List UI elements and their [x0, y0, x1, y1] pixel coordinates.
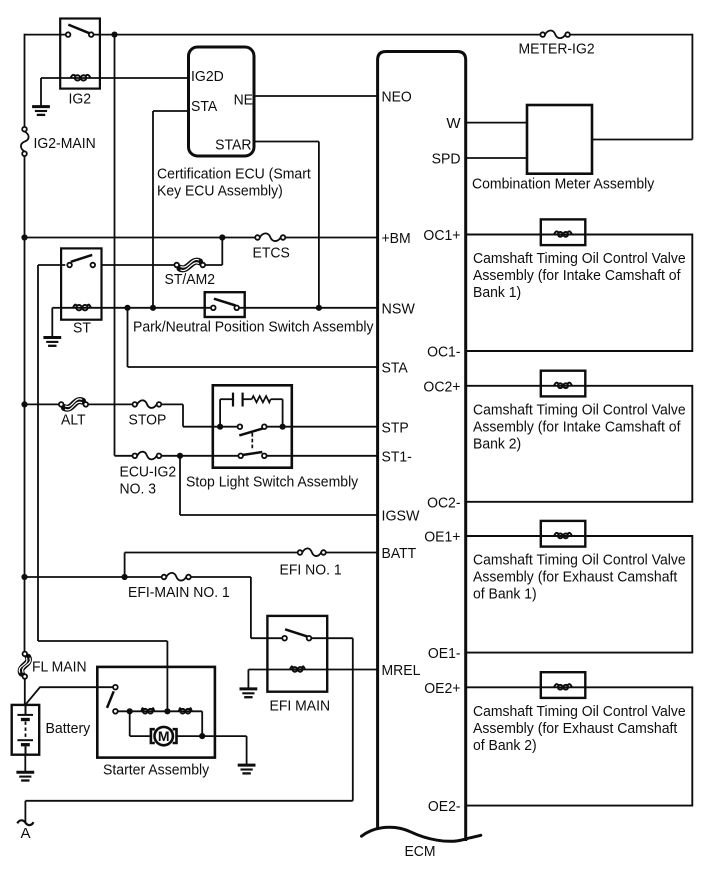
label ALT: [61, 412, 86, 429]
label Combination Meter Assembly: [472, 176, 655, 193]
fuse IG2-MAIN: [21, 127, 29, 156]
valve 3 coil: [554, 533, 572, 538]
node EFI-MAIN tap: [21, 574, 27, 580]
switch Park/Neutral lever: [214, 299, 236, 306]
wire battery positive diagonal to starter switch: [26, 687, 113, 704]
relay ST box: [61, 248, 101, 319]
svg-text:STOP: STOP: [129, 412, 167, 429]
valve Camshaft Timing Oil Control Valve Assembly 1 box: [466, 235, 693, 352]
svg-text:A: A: [21, 825, 31, 842]
wire IG2 coil to Certification ECU IG2D: [100, 77, 189, 79]
label Battery: [46, 720, 91, 737]
label FL MAIN: [32, 659, 87, 676]
wire motor branch: [130, 711, 203, 736]
wire EFI-MAIN NO. 1 row: [25, 577, 251, 638]
pin STA label: [382, 360, 408, 377]
break symbol at node A: [17, 820, 33, 825]
wire STP row inside box: [213, 426, 378, 428]
svg-text:EFI-MAIN NO. 1: EFI-MAIN NO. 1: [128, 584, 230, 601]
wire starter solenoid row: [118, 711, 203, 736]
svg-text:NEO: NEO: [382, 89, 412, 106]
wire EFI MAIN coil left to ground: [248, 670, 267, 689]
svg-text:Combination Meter Assembly: Combination Meter Assembly: [472, 176, 655, 193]
label METER-IG2: [519, 41, 595, 58]
switch STP contacts: [238, 424, 267, 429]
node IGSW branch: [177, 453, 183, 459]
pin OE1- label: [428, 645, 461, 662]
label ST: [73, 320, 91, 337]
relay IG2 switch contacts: [66, 32, 94, 37]
starter switch lever: [107, 691, 114, 708]
relay ST switch contacts: [67, 263, 95, 268]
label valve 1 text: [473, 250, 686, 301]
node RC left: [217, 424, 223, 430]
valve 1 coil: [554, 231, 572, 236]
valve Camshaft Timing Oil Control Valve Assembly 2 box: [466, 386, 693, 502]
svg-text:ST1-: ST1-: [382, 448, 412, 465]
wire battery to ground: [24, 755, 26, 772]
svg-text:Bank 2): Bank 2): [473, 435, 521, 452]
node solenoid left: [127, 708, 133, 714]
relay EFI MAIN switch contacts: [282, 636, 311, 641]
wire ST switch left down to starter: [38, 265, 167, 711]
fuse EFI-MAIN NO. 1: [162, 573, 191, 581]
label Certification ECU (Smart Key ECU Assembly): [157, 166, 312, 200]
wire left frame IG2-MAIN to FL MAIN: [24, 156, 26, 652]
wire W to combination meter: [466, 122, 527, 124]
pin SPD label: [432, 151, 461, 168]
svg-text:Starter Assembly: Starter Assembly: [103, 762, 210, 779]
svg-text:STA: STA: [382, 360, 408, 377]
node STAR branch: [316, 305, 322, 311]
wire FL MAIN to battery: [24, 679, 26, 705]
svg-text:METER-IG2: METER-IG2: [519, 41, 595, 58]
ecm break wave: [362, 827, 481, 841]
relay ST coil: [61, 305, 101, 311]
svg-text:SPD: SPD: [432, 151, 461, 168]
svg-text:STP: STP: [382, 419, 409, 436]
svg-text:MREL: MREL: [382, 662, 421, 679]
battery cell symbol: [17, 705, 33, 755]
svg-text:IG2: IG2: [69, 91, 92, 108]
ecu ECM box outline: [378, 52, 466, 842]
fuse METER-IG2: [540, 30, 569, 38]
node solenoid mid (ST feed): [164, 708, 170, 714]
inductor starter pull-in coil: [141, 708, 154, 713]
pin STP label: [382, 419, 409, 436]
node STA cert branch: [150, 305, 156, 311]
label EFI NO. 1: [280, 562, 342, 579]
label IG2-MAIN: [34, 135, 96, 152]
ground for EFI MAIN relay coil: [240, 689, 258, 697]
fuse ECU-IG2 NO. 3: [133, 452, 162, 460]
label EFI-MAIN NO. 1: [128, 584, 230, 601]
label Park/Neutral Position Switch Assembly: [133, 319, 374, 336]
svg-text:M: M: [158, 728, 170, 744]
svg-text:OC1+: OC1+: [423, 227, 460, 244]
svg-text:ECM: ECM: [405, 843, 436, 860]
pin ST1- label: [382, 448, 412, 465]
starter Starter Assembly box: [97, 667, 215, 758]
svg-text:Camshaft Timing Oil Control Va: Camshaft Timing Oil Control Valve: [473, 552, 686, 569]
svg-text:NE: NE: [234, 92, 253, 109]
capacitor in stop light switch: [233, 393, 243, 407]
relay ST switch lever: [71, 255, 92, 262]
svg-text:ECU-IG2: ECU-IG2: [120, 464, 177, 481]
wire RC branch risers and links: [220, 399, 283, 427]
svg-text:Park/Neutral Position Switch A: Park/Neutral Position Switch Assembly: [133, 319, 374, 336]
svg-text:Assembly (for Intake Camshaft: Assembly (for Intake Camshaft of: [473, 418, 681, 435]
svg-text:OC2+: OC2+: [423, 378, 460, 395]
valve 2 coil: [554, 383, 572, 388]
pin OC1+ label: [423, 227, 460, 244]
svg-text:OE2-: OE2-: [428, 798, 461, 815]
wire EFI MAIN switch left: [251, 637, 282, 639]
label EFI MAIN: [270, 698, 331, 715]
svg-text:EFI MAIN: EFI MAIN: [270, 698, 331, 715]
svg-text:OE1+: OE1+: [424, 529, 461, 546]
valve Camshaft Timing Oil Control Valve Assembly 4 box: [466, 687, 693, 805]
label valve 4 text: [473, 703, 686, 754]
svg-text:ALT: ALT: [61, 412, 86, 429]
svg-text:OC2-: OC2-: [427, 494, 460, 511]
pin NE label: [234, 92, 253, 109]
wire left frame from IG2 relay to IG2-MAIN fuse: [25, 34, 66, 127]
wire branch down to ST/AM2 fuse: [205, 238, 222, 266]
switch Park/Neutral contacts: [211, 306, 239, 311]
node motor output: [199, 733, 205, 739]
node ST/AM2 branch tap: [219, 234, 225, 240]
switch ST1- lever: [242, 452, 262, 455]
wire NE to ECM NEO: [254, 95, 378, 97]
label IG2: [69, 91, 92, 108]
svg-text:Camshaft Timing Oil Control Va: Camshaft Timing Oil Control Valve: [473, 401, 686, 418]
wire BATT row: [125, 553, 378, 578]
label valve 3 text: [473, 552, 686, 603]
valve 4 coil: [554, 684, 572, 689]
svg-text:FL MAIN: FL MAIN: [32, 659, 87, 676]
svg-text:Camshaft Timing Oil Control Va: Camshaft Timing Oil Control Valve: [473, 703, 686, 720]
pin NSW label: [382, 300, 416, 317]
wire NSW from ST coil to ECM: [102, 307, 378, 309]
wire IG2 coil left to ground: [41, 78, 60, 106]
svg-text:BATT: BATT: [382, 545, 417, 562]
valve 3 coil box: [541, 521, 586, 547]
pin OE1+ label: [424, 529, 461, 546]
switch STP lever: [239, 428, 263, 435]
wire STOP fuse to stop light switch: [161, 404, 213, 426]
pin W label: [446, 115, 461, 132]
node BATT branch: [122, 574, 128, 580]
fuse ETCS: [255, 233, 285, 241]
node ALT tap: [21, 401, 27, 407]
relay EFI MAIN box: [267, 616, 327, 692]
svg-text:ST/AM2: ST/AM2: [165, 271, 216, 288]
svg-text:EFI NO. 1: EFI NO. 1: [280, 562, 342, 579]
fuse FL MAIN (fusible link): [19, 652, 30, 679]
svg-text:ST: ST: [73, 320, 91, 337]
relay EFI MAIN coil: [290, 666, 305, 671]
label Stop Light Switch Assembly: [186, 474, 359, 491]
wire ECU-IG2 NO. 3 to stop light switch ST1- row: [161, 455, 213, 457]
svg-text:of Bank 2): of Bank 2): [473, 737, 537, 754]
motor left bracket: [151, 729, 155, 743]
wire ALT row: [25, 403, 133, 405]
wire ST relay switch to ST/AM2 fuse: [102, 264, 175, 266]
label STOP: [129, 412, 167, 429]
wire EFI MAIN coil row to ECM MREL: [267, 669, 377, 671]
ground for starter motor: [238, 765, 256, 773]
valve Camshaft Timing Oil Control Valve Assembly 3 box: [466, 536, 693, 653]
ground for ST relay coil: [43, 338, 61, 346]
wire ST coil left to ground: [52, 308, 61, 337]
pin STA label: [191, 98, 217, 115]
pin IG2D label: [191, 68, 224, 85]
wire ST1- row inside box to ECM: [213, 455, 378, 457]
wire +BM from left frame to ECM: [25, 237, 378, 239]
svg-text:Assembly (for Exhaust Camshaft: Assembly (for Exhaust Camshaft: [473, 720, 678, 737]
inductor starter hold-in coil: [179, 708, 192, 713]
wire IG2 relay output to METER-IG2 fuse and down right side: [94, 34, 693, 140]
fuse EFI NO. 1: [298, 548, 326, 556]
pin NEO label: [382, 89, 412, 106]
switch ST1- contacts: [238, 454, 266, 459]
valve 2 coil box: [541, 371, 586, 397]
svg-text:ETCS: ETCS: [253, 245, 290, 262]
pin MREL label: [382, 662, 421, 679]
valve 4 coil box: [541, 672, 586, 698]
svg-text:STAR: STAR: [215, 137, 252, 154]
svg-text:Camshaft Timing Oil Control Va: Camshaft Timing Oil Control Valve: [473, 250, 686, 267]
motor right bracket: [173, 729, 177, 743]
pin OE2- label: [428, 798, 461, 815]
relay IG2 switch lever: [68, 25, 89, 34]
dashed link between switch poles: [251, 433, 253, 450]
relay IG2 coil: [60, 75, 100, 81]
wire STA to ECM: [128, 308, 378, 367]
fuse STOP: [133, 400, 162, 408]
pin IGSW label: [382, 508, 421, 525]
relay IG2 box: [60, 19, 100, 89]
label ECM: [405, 843, 436, 860]
starter switch contacts: [113, 685, 118, 714]
svg-text:+BM: +BM: [382, 230, 411, 247]
ground for battery: [16, 772, 34, 780]
svg-text:NO. 3: NO. 3: [120, 481, 157, 498]
wire STA down to NSW net: [153, 111, 189, 308]
node RC right: [280, 424, 286, 430]
svg-text:NSW: NSW: [382, 300, 416, 317]
svg-text:Stop Light Switch Assembly: Stop Light Switch Assembly: [186, 474, 359, 491]
ecu Certification ECU (Smart Key ECU Assembly) box: [189, 47, 255, 156]
svg-text:OE2+: OE2+: [424, 680, 461, 697]
wire IGSW branch to ECM: [180, 456, 378, 515]
switch Stop Light Switch Assembly box: [213, 385, 292, 467]
svg-text:W: W: [446, 115, 461, 132]
battery Battery box: [12, 705, 40, 755]
valve 1 coil box: [541, 219, 586, 245]
wire STAR down to NSW net: [254, 142, 319, 308]
label A: [21, 825, 31, 842]
wire bottom rail to node A: [25, 801, 352, 824]
meter Combination Meter Assembly box: [527, 105, 592, 174]
pin BATT label: [382, 545, 417, 562]
svg-text:IGSW: IGSW: [382, 508, 421, 525]
pin OE2+ label: [424, 680, 461, 697]
switch Park/Neutral Position box: [205, 292, 245, 317]
label ST/AM2: [165, 271, 216, 288]
svg-text:Key ECU Assembly): Key ECU Assembly): [157, 183, 283, 200]
label ETCS: [253, 245, 290, 262]
node +BM tap: [21, 234, 27, 240]
relay EFI MAIN switch lever: [285, 629, 307, 636]
svg-text:of Bank 1): of Bank 1): [473, 586, 537, 603]
svg-text:OC1-: OC1-: [427, 344, 460, 361]
label Starter Assembly: [103, 762, 210, 779]
pin +BM label: [382, 230, 411, 247]
fuse ST/AM2 (fusible link): [174, 259, 205, 270]
ground for IG2 relay coil: [32, 107, 50, 115]
svg-text:STA: STA: [191, 98, 217, 115]
svg-text:Assembly (for Intake Camshaft: Assembly (for Intake Camshaft of: [473, 267, 681, 284]
pin STAR label: [215, 137, 252, 154]
wire motor output to ground: [202, 736, 246, 764]
wire IG2 output feed down to ECU-IG2 NO. 3 fuse: [115, 35, 133, 456]
svg-text:IG2-MAIN: IG2-MAIN: [34, 135, 96, 152]
resistor in stop light switch: [252, 396, 271, 402]
svg-text:Battery: Battery: [46, 720, 91, 737]
svg-text:OE1-: OE1-: [428, 645, 461, 662]
pin OC2+ label: [423, 378, 460, 395]
node STA-ECM branch: [124, 305, 130, 311]
node junction on IG2 output (x=114.5): [111, 31, 117, 37]
pin OC2- label: [427, 494, 460, 511]
wire EFI MAIN switch right down to node A rail: [311, 638, 353, 801]
label valve 2 text: [473, 401, 686, 452]
pin OC1- label: [427, 344, 460, 361]
svg-text:Bank 1): Bank 1): [473, 284, 521, 301]
label ECU-IG2 NO. 3: [120, 464, 177, 498]
svg-text:Assembly (for Exhaust Camshaft: Assembly (for Exhaust Camshaft: [473, 569, 678, 586]
svg-text:Certification ECU (Smart: Certification ECU (Smart: [157, 166, 312, 183]
fuse ALT (fusible link): [59, 399, 88, 410]
svg-text:IG2D: IG2D: [191, 68, 224, 85]
wire SPD to combination meter: [466, 157, 527, 159]
motor M circle: [155, 727, 173, 745]
